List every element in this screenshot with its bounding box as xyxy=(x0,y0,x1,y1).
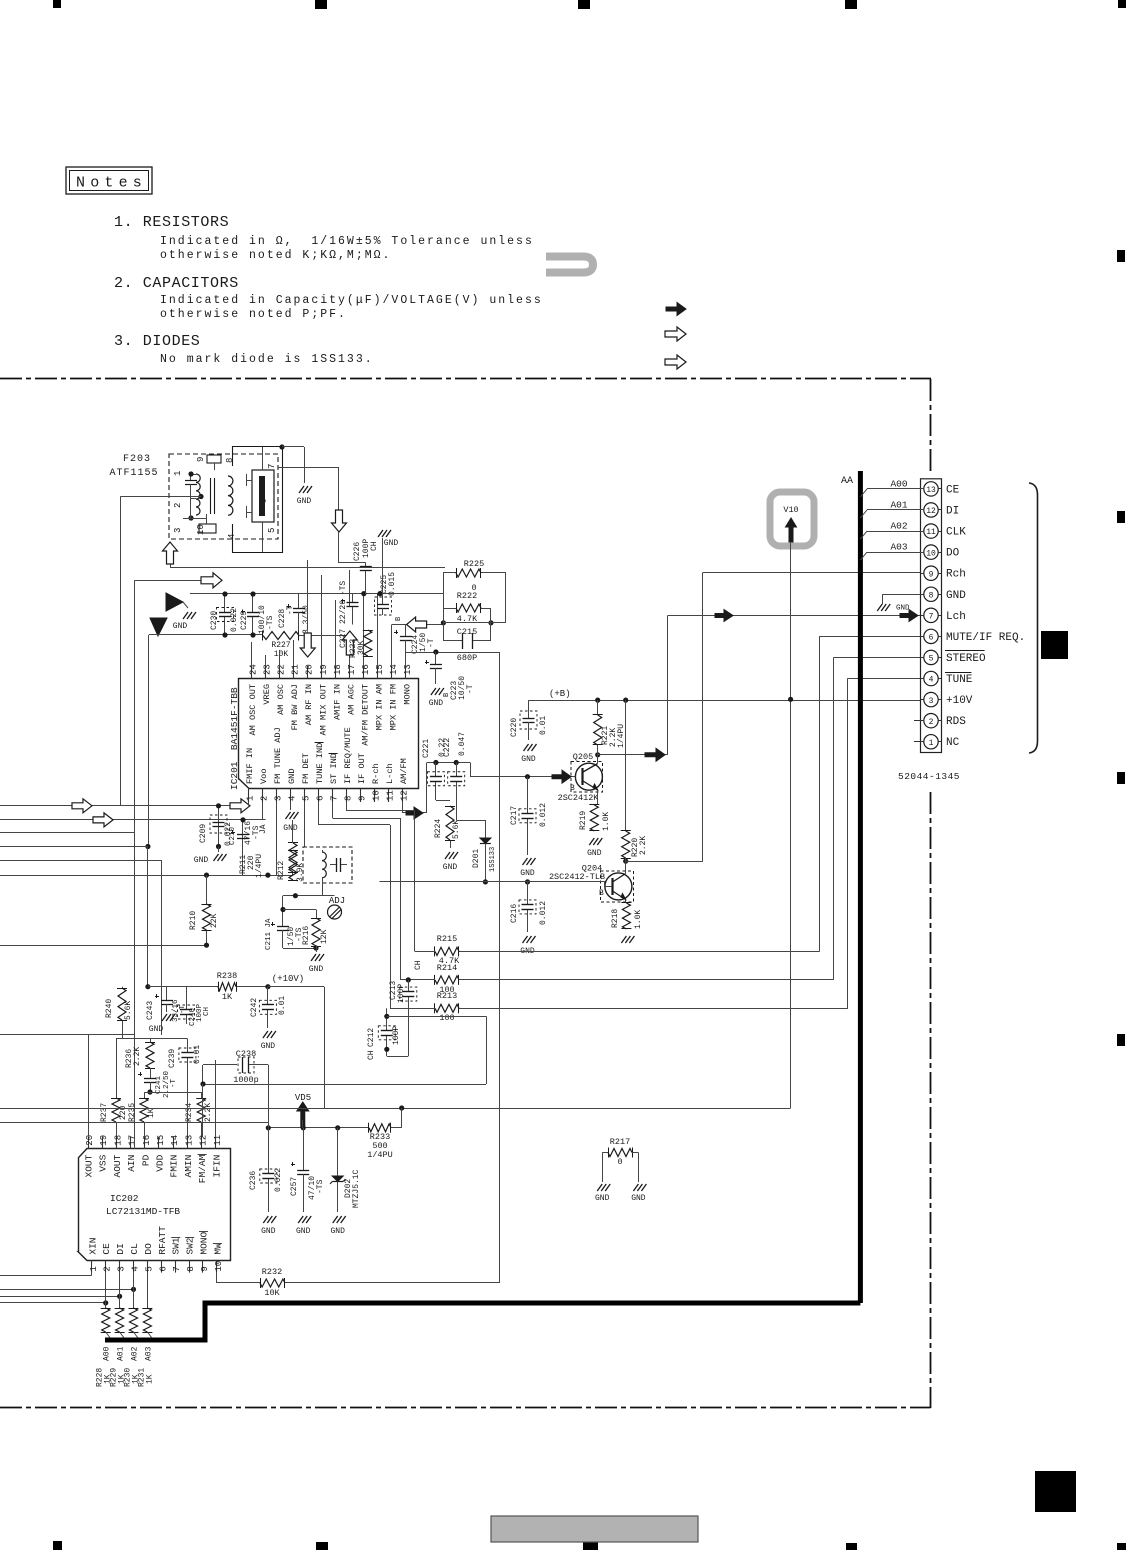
arrow Lch at connector xyxy=(900,610,918,622)
capacitor C239 xyxy=(187,1039,189,1044)
registration mark bottom 3 xyxy=(583,1542,598,1550)
arrow up from pin17 xyxy=(349,655,351,666)
svg-text:FM BW ADJ: FM BW ADJ xyxy=(290,684,300,730)
node R230 top xyxy=(131,1287,136,1292)
resistor R225 xyxy=(443,573,445,594)
wire MUTE route xyxy=(820,636,921,638)
node +B R221 xyxy=(595,698,600,703)
IC202 pin 17 stub xyxy=(130,1137,132,1149)
svg-text:11: 11 xyxy=(213,1135,223,1146)
svg-text:A03: A03 xyxy=(144,1346,153,1361)
capacitor C228 xyxy=(298,594,300,608)
bracket right xyxy=(1029,483,1038,753)
node +B R220 xyxy=(623,698,628,703)
wire left 1289 xyxy=(0,1289,134,1291)
node C241 bottom xyxy=(147,1089,152,1094)
IC201 pin 10 stub xyxy=(374,789,376,802)
wire A00 to connector xyxy=(867,488,924,490)
svg-text:IC201 BA1451F-TBB: IC201 BA1451F-TBB xyxy=(229,687,240,790)
V10 marker xyxy=(770,492,814,546)
svg-text:MONO: MONO xyxy=(199,1231,210,1254)
registration mark bottom 2 xyxy=(316,1542,328,1550)
wire R233 right xyxy=(391,1127,402,1129)
svg-text:2.2K: 2.2K xyxy=(639,836,648,855)
svg-text:0.01: 0.01 xyxy=(278,996,287,1015)
IC202 pin 6 stub xyxy=(161,1261,163,1273)
registration mark top 4 xyxy=(845,0,857,9)
wire pin8 gnd stub xyxy=(882,594,920,596)
wire V10 down xyxy=(790,543,792,1108)
svg-text:Indicated in Ω, 1/16W±5% Tole: Indicated in Ω, 1/16W±5% Tolerance unles… xyxy=(160,235,534,248)
svg-text:0.022: 0.022 xyxy=(230,608,239,632)
arrow left1 a xyxy=(72,799,92,813)
wire Rch xyxy=(626,861,703,863)
svg-text:GND: GND xyxy=(587,849,602,858)
IC201 pin 8 stub xyxy=(346,789,348,802)
wire left in 3 xyxy=(0,832,135,834)
svg-text:5: 5 xyxy=(267,528,277,533)
svg-text:3.9K: 3.9K xyxy=(296,863,305,882)
IC201 pin 15 stub xyxy=(377,666,379,679)
wire pin22 up xyxy=(279,650,281,666)
ground C223 xyxy=(431,688,444,695)
resistor R229 xyxy=(116,1308,124,1332)
svg-text:52044-1345: 52044-1345 xyxy=(898,771,960,782)
svg-text:SW1: SW1 xyxy=(171,1237,182,1254)
svg-text:otherwise noted K;KΩ,M;MΩ.: otherwise noted K;KΩ,M;MΩ. xyxy=(160,249,391,262)
svg-text:A03: A03 xyxy=(890,542,907,553)
svg-text:AM/FM DETOUT: AM/FM DETOUT xyxy=(360,684,370,746)
svg-text:GND: GND xyxy=(443,863,458,872)
capacitor C211 xyxy=(277,926,289,928)
arrow into C226 line xyxy=(332,510,347,532)
node R233 branch xyxy=(399,1105,404,1110)
svg-text:GND: GND xyxy=(194,856,209,865)
svg-text:4: 4 xyxy=(287,796,297,801)
svg-text:2.2K: 2.2K xyxy=(204,1103,213,1122)
wire left 1122 xyxy=(0,1122,268,1124)
ground C226 xyxy=(382,538,384,601)
connector pin 2 circle xyxy=(924,713,938,727)
svg-text:TUNE: TUNE xyxy=(946,674,973,686)
node F203 pin3 xyxy=(188,515,193,520)
svg-text:R216: R216 xyxy=(302,926,311,945)
connector pin 3 circle xyxy=(924,692,938,706)
capacitor C227 elec xyxy=(352,594,354,603)
ground IC201 pin4 xyxy=(290,802,292,810)
svg-text:5: 5 xyxy=(144,1266,154,1271)
svg-text:8: 8 xyxy=(225,458,235,463)
node filter top right xyxy=(279,444,284,449)
resistor R223 xyxy=(364,630,372,656)
IC201 pin 23 stub xyxy=(265,666,267,679)
registration mark bottom 1 xyxy=(53,1541,62,1550)
svg-text:1K: 1K xyxy=(145,1374,154,1384)
svg-text:LC72131MD-TFB: LC72131MD-TFB xyxy=(106,1206,180,1217)
svg-text:0.047: 0.047 xyxy=(458,732,467,756)
registration mark top right corner xyxy=(1118,0,1126,8)
svg-text:0.01: 0.01 xyxy=(539,716,548,735)
ground F203 xyxy=(299,486,312,493)
svg-text:9: 9 xyxy=(200,1266,210,1271)
wire R231 to bus xyxy=(147,1332,153,1340)
capacitor C236 xyxy=(268,1128,270,1162)
svg-text:R225: R225 xyxy=(464,559,484,569)
resistor R238 xyxy=(148,986,218,988)
node C229 bottom xyxy=(250,632,255,637)
wire pin21 up xyxy=(293,640,295,666)
svg-text:R213: R213 xyxy=(437,991,457,1001)
svg-text:R232: R232 xyxy=(262,1267,282,1277)
svg-text:GND: GND xyxy=(287,769,297,784)
svg-text:CH: CH xyxy=(203,1007,211,1016)
capacitor C240 xyxy=(186,987,188,1000)
svg-text:GND: GND xyxy=(595,1194,610,1203)
svg-text:FM DET: FM DET xyxy=(301,753,311,784)
svg-text:B: B xyxy=(570,784,575,793)
capacitor C220 xyxy=(528,700,530,714)
svg-text:Rch: Rch xyxy=(946,569,966,581)
IC201 pin7 overline xyxy=(329,753,338,755)
wire C211 column xyxy=(282,896,284,920)
svg-text:3: 3 xyxy=(117,1266,127,1271)
svg-text:A01: A01 xyxy=(890,499,907,510)
filter solid outline xyxy=(233,447,283,553)
IC202 pin 11 stub xyxy=(215,1137,217,1149)
svg-text:GND: GND xyxy=(521,755,536,764)
svg-text:A02: A02 xyxy=(890,521,907,532)
svg-text:(+B): (+B) xyxy=(549,689,571,699)
svg-text:L-ch: L-ch xyxy=(385,763,395,784)
svg-text:6: 6 xyxy=(929,634,934,643)
diode D201 xyxy=(485,820,487,838)
wire left 1296 xyxy=(0,1296,120,1298)
IC202 pin8 overline xyxy=(185,1237,194,1239)
svg-text:-TS: -TS xyxy=(266,615,275,630)
wire left in 4 xyxy=(0,846,148,848)
registration mark top 3 xyxy=(578,0,590,9)
svg-text:(+10V): (+10V) xyxy=(272,974,304,984)
wire R217 left xyxy=(602,1152,608,1154)
svg-text:AMIF IN: AMIF IN xyxy=(332,684,342,720)
svg-text:R234: R234 xyxy=(185,1103,194,1122)
black square marker right xyxy=(1041,631,1068,659)
capacitor C212 xyxy=(386,1008,388,1016)
svg-text:1: 1 xyxy=(245,796,255,801)
node Q204 collector xyxy=(623,859,628,864)
wire STEREO to pin7 xyxy=(400,979,408,981)
IC201 pin 1 stub xyxy=(248,789,250,802)
svg-text:R-ch: R-ch xyxy=(371,763,381,784)
gray footer box xyxy=(491,1516,698,1542)
bus A thick line xyxy=(105,1303,860,1340)
svg-text:680P: 680P xyxy=(457,653,477,663)
resistor R217 xyxy=(608,1149,632,1157)
wire C238 left down xyxy=(202,1065,204,1084)
IC201 pin 21 stub xyxy=(293,666,295,679)
svg-text:6: 6 xyxy=(158,1266,168,1271)
svg-text:DO: DO xyxy=(946,548,960,560)
svg-text:C221: C221 xyxy=(422,739,431,758)
svg-text:ADJ: ADJ xyxy=(329,896,345,906)
wire filter gnd xyxy=(282,446,304,448)
svg-text:17: 17 xyxy=(128,1135,138,1146)
svg-text:5.6K: 5.6K xyxy=(452,820,461,839)
svg-text:9: 9 xyxy=(196,457,206,462)
wire C221 bottom xyxy=(435,795,437,800)
svg-text:3: 3 xyxy=(273,796,283,801)
capacitor C230 xyxy=(224,594,226,612)
svg-text:C222: C222 xyxy=(443,738,452,757)
capacitor C241 xyxy=(150,1068,152,1074)
svg-text:2: 2 xyxy=(103,1266,113,1271)
connector pin 13 circle xyxy=(924,482,938,496)
registration mark bottom right corner xyxy=(1117,1543,1126,1550)
svg-text:1: 1 xyxy=(89,1266,99,1271)
connector pin 8 circle xyxy=(924,587,938,601)
svg-text:7: 7 xyxy=(330,796,340,801)
svg-text:10K: 10K xyxy=(274,650,289,659)
wire R230 to bus xyxy=(134,1332,140,1340)
legend solid arrow xyxy=(666,303,686,316)
svg-text:GND: GND xyxy=(261,1227,276,1236)
wire +10V horizontal xyxy=(324,1108,791,1110)
connector pin 6 circle xyxy=(924,629,938,643)
wire left 1109 xyxy=(0,1108,324,1110)
svg-text:0.012: 0.012 xyxy=(539,901,548,925)
svg-text:IF REQ/MUTE: IF REQ/MUTE xyxy=(343,727,353,784)
IC202 pin 2 stub xyxy=(105,1261,107,1273)
node R222 right xyxy=(488,620,493,625)
IC202 pin 13 stub xyxy=(187,1137,189,1149)
IC202 pin9 overline xyxy=(199,1231,208,1233)
svg-text:4: 4 xyxy=(131,1266,141,1271)
svg-text:2. CAPACITORS: 2. CAPACITORS xyxy=(114,275,239,292)
wire Q205 emitter xyxy=(597,790,599,805)
svg-text:17: 17 xyxy=(347,664,357,675)
resistor R240 xyxy=(122,1020,124,1038)
wire left 1035 xyxy=(0,1034,135,1036)
node C223 top xyxy=(433,649,438,654)
wire pin2 stub xyxy=(914,720,921,722)
svg-text:GND: GND xyxy=(297,497,312,506)
svg-text:A02: A02 xyxy=(131,1346,140,1361)
wire Lch to pin7 xyxy=(668,615,921,617)
IC202 pin 16 stub xyxy=(144,1137,146,1149)
svg-text:AIN: AIN xyxy=(126,1155,137,1172)
svg-text:CLK: CLK xyxy=(946,527,966,539)
svg-text:8: 8 xyxy=(929,591,934,600)
ground R219 xyxy=(589,838,602,845)
coil T201 xyxy=(322,852,326,878)
resistor R220 xyxy=(625,700,627,831)
node R228 top xyxy=(103,1300,108,1305)
svg-text:GND: GND xyxy=(283,824,298,833)
node C229 top xyxy=(250,591,255,596)
F203 trimmer 9 xyxy=(207,455,221,463)
svg-text:TUNE IND: TUNE IND xyxy=(315,743,325,784)
wire R228 top xyxy=(105,1273,107,1308)
node VD5 row c xyxy=(335,1125,340,1130)
svg-text:0.015: 0.015 xyxy=(388,572,397,596)
resistor R219 xyxy=(590,805,598,831)
svg-text:9: 9 xyxy=(358,796,368,801)
IC202 pin 9 stub xyxy=(202,1261,204,1273)
ground C257 xyxy=(298,1216,311,1223)
svg-text:GND: GND xyxy=(520,869,535,878)
IC201 pin 18 stub xyxy=(335,666,337,679)
ground connector pin8 xyxy=(877,604,890,611)
svg-text:C257: C257 xyxy=(290,1177,299,1196)
border dash-dot right upper xyxy=(930,379,932,474)
svg-text:B: B xyxy=(395,617,403,621)
connector pin 11 circle xyxy=(924,524,938,538)
svg-text:4: 4 xyxy=(929,676,934,685)
svg-text:220: 220 xyxy=(119,1105,128,1120)
connector pin 12 circle xyxy=(924,503,938,517)
IC201 pin 3 stub xyxy=(276,789,278,802)
node C216 top xyxy=(525,879,530,884)
svg-text:C241: C241 xyxy=(155,1075,163,1094)
wire C221 row xyxy=(426,763,428,814)
wire +10V to down xyxy=(268,986,324,988)
wire XIN left xyxy=(0,1275,92,1277)
wire base line right xyxy=(500,881,605,883)
wire long vertical AMFM xyxy=(499,652,501,1283)
svg-text:-TS: -TS xyxy=(316,1179,325,1194)
svg-text:XOUT: XOUT xyxy=(84,1154,95,1177)
svg-text:19: 19 xyxy=(319,664,329,675)
ground C216 xyxy=(523,936,536,943)
node pin15 top xyxy=(377,591,382,596)
svg-text:CH: CH xyxy=(414,960,423,970)
coil T201 box xyxy=(303,847,352,883)
IC U201 body xyxy=(239,679,419,789)
svg-text:MPX IN FM: MPX IN FM xyxy=(388,684,398,730)
svg-text:V10: V10 xyxy=(783,505,798,515)
svg-text:1. RESISTORS: 1. RESISTORS xyxy=(114,214,229,231)
capacitor C225 xyxy=(382,601,384,604)
node VD5 row a xyxy=(266,1125,271,1130)
wire R232 row xyxy=(216,1273,218,1283)
svg-text:VDD: VDD xyxy=(155,1154,166,1171)
svg-text:15: 15 xyxy=(156,1135,166,1146)
svg-text:16: 16 xyxy=(142,1135,152,1146)
svg-text:13: 13 xyxy=(403,664,413,675)
wire R227 right xyxy=(299,635,352,637)
capacitor C242 xyxy=(267,987,269,1005)
svg-text:C226: C226 xyxy=(353,542,362,561)
arrow Lch mid xyxy=(715,610,733,622)
capacitor C210 xyxy=(242,820,244,875)
svg-text:NC: NC xyxy=(946,737,960,749)
legend hollow arrow 2 xyxy=(665,355,686,369)
svg-text:1: 1 xyxy=(929,739,934,748)
capacitor C223 xyxy=(435,652,437,664)
diode D202 zener xyxy=(337,1128,339,1176)
svg-text:R219: R219 xyxy=(579,811,588,830)
wire pin13 top xyxy=(405,652,407,666)
wire VD5 row xyxy=(268,1127,369,1129)
black square marker bottom right xyxy=(1035,1471,1076,1512)
wire IC202 pin12 top xyxy=(202,1084,204,1137)
connector pin 5 circle xyxy=(924,650,938,664)
arrow left2 xyxy=(93,813,113,827)
IC U202 body xyxy=(78,1149,231,1261)
IC201 pin 22 stub xyxy=(279,666,281,679)
IC201 pin 6 stub xyxy=(318,789,320,802)
ground C220 xyxy=(524,744,537,751)
wire below F203 horizontal xyxy=(170,567,445,569)
resistor R237 xyxy=(116,1038,118,1098)
node F203 tap xyxy=(198,494,203,499)
svg-text:RDS: RDS xyxy=(946,716,966,728)
svg-text:8: 8 xyxy=(344,796,354,801)
svg-text:DI: DI xyxy=(946,505,959,517)
svg-text:12: 12 xyxy=(400,790,410,801)
svg-text:GND: GND xyxy=(296,1227,311,1236)
wire pin1 down xyxy=(248,802,250,806)
svg-text:FM TUNE ADJ: FM TUNE ADJ xyxy=(273,727,283,784)
connector pin 10 circle xyxy=(924,545,938,559)
svg-text:C242: C242 xyxy=(250,998,259,1017)
transformer F203 dashed outline xyxy=(169,454,278,539)
svg-text:A00: A00 xyxy=(103,1346,112,1361)
svg-text:C220: C220 xyxy=(510,718,519,737)
svg-text:20: 20 xyxy=(305,664,315,675)
svg-text:3: 3 xyxy=(173,528,183,533)
svg-text:24: 24 xyxy=(249,664,259,675)
svg-text:DO: DO xyxy=(143,1243,154,1255)
svg-text:GND: GND xyxy=(896,605,910,613)
wire TUNE to pin6 xyxy=(390,825,392,1008)
svg-text:10K: 10K xyxy=(264,1288,280,1298)
wire R211 top xyxy=(292,820,294,843)
arrow up below F203 xyxy=(163,542,178,564)
IC201 pin 17 stub xyxy=(349,666,351,679)
resistor R228 xyxy=(102,1308,110,1332)
svg-text:AM RF IN: AM RF IN xyxy=(304,684,314,725)
svg-text:13: 13 xyxy=(184,1135,194,1146)
capacitor C226 xyxy=(365,563,367,567)
ground R218 xyxy=(621,936,634,943)
svg-text:1.0K: 1.0K xyxy=(602,812,611,831)
IC201 pin 7 stub xyxy=(332,789,334,802)
svg-text:1/4PU: 1/4PU xyxy=(617,724,626,748)
svg-text:VREG: VREG xyxy=(262,684,272,705)
wire F203 bottom stub xyxy=(170,542,172,567)
resistor R221 xyxy=(597,700,599,715)
svg-text:A01: A01 xyxy=(117,1346,126,1361)
svg-text:0.012: 0.012 xyxy=(539,803,548,827)
connector pin 1 circle xyxy=(924,735,938,749)
capacitor C213 xyxy=(408,980,410,992)
svg-text:15: 15 xyxy=(375,664,385,675)
IC202 pin 3 stub xyxy=(119,1261,121,1273)
arrow VD5 xyxy=(297,1102,309,1127)
svg-text:VSS: VSS xyxy=(98,1154,109,1171)
wire left feed F203 xyxy=(120,496,201,498)
arrow down into pin20 xyxy=(307,560,309,630)
svg-text:6: 6 xyxy=(316,796,326,801)
node left6 a xyxy=(204,873,209,878)
svg-text:C210: C210 xyxy=(229,826,237,845)
wire left 1303 xyxy=(0,1302,106,1304)
ground C209 xyxy=(218,847,220,853)
wire F203 pin3 row xyxy=(190,490,192,518)
IC201 pin 5 stub xyxy=(304,789,306,802)
svg-text:AM OSC OUT: AM OSC OUT xyxy=(248,684,258,736)
